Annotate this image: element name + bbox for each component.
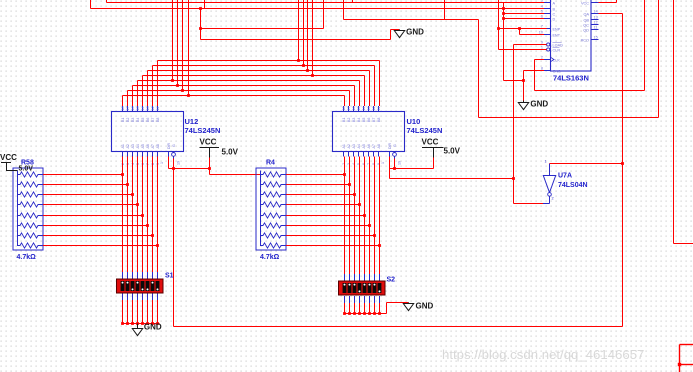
wire R4 row6 to pin (286, 225, 370, 227)
wire 163N gnd vertical (523, 71, 525, 101)
wire S2 stub top pin7 (374, 274, 376, 281)
wire net-C horizontal (504, 13, 545, 15)
wire R4 row2 to pin (286, 184, 350, 186)
node U10 G junction (393, 167, 396, 170)
wire S2 gather line (345, 313, 387, 315)
wire U10 pin1 column (344, 157, 346, 275)
wire U7A output horizontal (514, 203, 544, 205)
resistor pack R4 body (256, 168, 286, 250)
node junction rail65 (302, 64, 305, 67)
svg-text:VCC: VCC (422, 138, 439, 147)
svg-text:GND: GND (144, 322, 162, 331)
wire 498 to CLR vertical (498, 29, 500, 50)
wire bus-mid vertical x298 (298, 0, 300, 61)
wire S2 below pin4 (359, 303, 361, 314)
svg-text:12: 12 (372, 107, 376, 111)
svg-text:U12: U12 (185, 117, 199, 126)
node U12 vcc junction (208, 167, 211, 170)
wire S1 stub bottom pin1 (122, 293, 124, 300)
svg-text:5.0V: 5.0V (19, 166, 34, 173)
svg-text:A3: A3 (131, 144, 135, 148)
svg-text:B3: B3 (131, 118, 135, 122)
wire R58 row7 to pin (43, 235, 153, 237)
svg-text:B3: B3 (352, 118, 356, 122)
wire S2 below pin6 (369, 303, 371, 314)
svg-text:B2: B2 (347, 118, 351, 122)
wire net-QA horizontal (599, 13, 623, 15)
node R58 row7 junction (151, 234, 154, 237)
wire U10 dirg horizontal (390, 168, 434, 170)
svg-text:B2: B2 (126, 118, 130, 122)
svg-text:DIR: DIR (388, 143, 392, 150)
IC 74LS163N pins and labels (539, 0, 599, 73)
wire U12 pin1 column (122, 157, 124, 273)
wire U10 vcc stem red (433, 158, 435, 169)
node S1 gather pin2 (126, 322, 129, 325)
node tie-B junction (502, 7, 505, 10)
svg-text:14: 14 (141, 107, 145, 111)
svg-text:https://blog.csdn.net/qq_46146: https://blog.csdn.net/qq_46146657 (442, 347, 644, 362)
node S2 gather pin1 (343, 312, 346, 315)
node tie-C junction (502, 12, 505, 15)
wire S2 below pin8 (379, 303, 381, 314)
wire S2 below pin1 (344, 303, 346, 314)
svg-text:B8: B8 (156, 118, 160, 122)
wire U10 pin8 column (379, 157, 381, 275)
node R4 row3 junction (353, 193, 356, 196)
node junction rail60 (297, 59, 300, 62)
svg-text:17: 17 (126, 107, 130, 111)
node R58 row5 junction (141, 214, 144, 217)
wire U10 DIR branch down (389, 169, 391, 179)
wire U10 pin4 column (359, 157, 361, 275)
wire S1 below pin1 (122, 300, 124, 324)
IC U12 G pin bubble (172, 153, 176, 157)
svg-text:QC: QC (583, 23, 589, 27)
wire S1 stub top pin4 (137, 272, 139, 279)
wire S2 stub bottom pin8 (379, 296, 381, 303)
wire S1 stub bottom pin2 (127, 293, 129, 300)
node S1 gather pin8 (156, 322, 159, 325)
node junction rail75 (311, 74, 314, 77)
wire net-W riser x343 (343, 0, 345, 20)
wire U12 top pin4 vertical (137, 81, 139, 107)
wire net-A riser mid (352, 0, 354, 3)
node R4 row8 junction (378, 244, 381, 247)
wire bus-left vertical x172 (172, 0, 174, 81)
svg-text:4.7kΩ: 4.7kΩ (260, 254, 280, 261)
node R4 row2 junction (348, 183, 351, 186)
wire net-B riser left (90, 0, 92, 9)
node junction rail70 (306, 69, 309, 72)
wire LOAD horizontal (514, 44, 547, 46)
node S1 gather pin7 (151, 322, 154, 325)
svg-text:GND: GND (406, 28, 424, 37)
wire R58 row8 to pin (43, 245, 158, 247)
wire net-ENP2 horizontal y28 (201, 28, 324, 30)
wire net-QA vertical x622 (622, 14, 624, 327)
power VCC U10 symbol (422, 147, 444, 149)
svg-text:A8: A8 (377, 144, 381, 148)
svg-text:B1: B1 (342, 118, 346, 122)
node inverter output junction (512, 177, 515, 180)
svg-text:ENP: ENP (553, 27, 561, 31)
wire U10 pin7 column (374, 157, 376, 275)
wire net-G12 bottom horizontal y326 (174, 326, 623, 328)
svg-text:A3: A3 (352, 144, 356, 148)
wire U10 pin3 column (354, 157, 356, 275)
node S1 gather pin3 (131, 322, 134, 325)
node S1 gather pin1 (121, 322, 124, 325)
svg-text:A4: A4 (357, 144, 361, 148)
svg-text:C: C (553, 12, 556, 16)
svg-text:A4: A4 (136, 144, 140, 148)
wire S1 stub top pin1 (122, 272, 124, 279)
wire S2 stub bottom pin1 (344, 296, 346, 303)
svg-text:16: 16 (352, 107, 356, 111)
svg-text:A7: A7 (151, 144, 155, 148)
wire U10 pin2 column (349, 157, 351, 275)
wire net-B riser x204 (204, 0, 206, 9)
IC U10 G pin bubble (393, 153, 397, 157)
svg-text:A7: A7 (372, 144, 376, 148)
svg-text:A1: A1 (121, 144, 125, 148)
wire S1 stub bottom pin6 (147, 293, 149, 300)
svg-text:5: 5 (541, 10, 543, 14)
svg-text:3: 3 (541, 0, 543, 3)
wire S1 stub bottom pin3 (132, 293, 134, 300)
wire data rail y95 (123, 95, 345, 97)
wire S1 stub bottom pin5 (142, 293, 144, 300)
svg-text:A5: A5 (141, 144, 145, 148)
svg-text:B6: B6 (146, 118, 150, 122)
wire net-W horizontal y117 (479, 117, 659, 119)
IC U?:74LS163N body (551, 0, 592, 71)
wire U12 top pin5 vertical (142, 76, 144, 107)
node junction rail90 (181, 89, 184, 92)
ground S2 (403, 302, 433, 311)
wire VCC R58 stem (7, 163, 18, 171)
wire bottom-right horizontal y364 (680, 364, 693, 366)
wire bus-left vertical x188 (188, 0, 190, 96)
svg-text:74LS245N: 74LS245N (185, 126, 221, 135)
node R58 row1 junction (121, 173, 124, 176)
wire S1 stub bottom pin8 (157, 293, 159, 300)
IC U10 pin labels (342, 107, 402, 166)
wire S1 below pin2 (127, 300, 129, 324)
wire ENT horizontal (520, 34, 545, 36)
svg-text:12: 12 (151, 107, 155, 111)
wire U12 pin5 column (142, 157, 144, 273)
wire ENT link vertical (519, 29, 521, 35)
svg-text:S2: S2 (387, 277, 396, 284)
node S2 gather pin4 (358, 312, 361, 315)
wire net-ENP horizontal (499, 28, 547, 30)
wire vcc to R4 horizontal (210, 174, 262, 176)
svg-text:11: 11 (156, 107, 160, 111)
svg-text:B4: B4 (136, 118, 140, 122)
wire net-D horizontal (504, 18, 545, 20)
svg-text:R4: R4 (266, 160, 275, 167)
node R58 row3 junction (131, 193, 134, 196)
wire bus-mid vertical x312 (312, 0, 314, 76)
svg-text:U10: U10 (407, 117, 421, 126)
wire net-G1 vertical x200 (200, 9, 202, 40)
node S1 gather pin6 (146, 322, 149, 325)
wire data rail y65 (153, 65, 375, 67)
wire S1 stub bottom pin4 (137, 293, 139, 300)
wire U12 top pin7 vertical (152, 66, 154, 107)
svg-text:VCC: VCC (200, 138, 217, 147)
wire right horizontal y243 (674, 243, 693, 245)
wire gnd-top horizontal y29 (391, 29, 400, 31)
node S2 gather pin5 (363, 312, 366, 315)
wire net-B top horizontal (91, 8, 545, 10)
node S2 gather pin3 (353, 312, 356, 315)
wire U12 top pin1 vertical (122, 96, 124, 107)
svg-text:B7: B7 (151, 118, 155, 122)
wire S1 stub top pin8 (157, 272, 159, 279)
svg-text:QB: QB (584, 18, 590, 22)
node R4 row1 junction (343, 173, 346, 176)
svg-text:17: 17 (347, 107, 351, 111)
node tie-D junction (502, 17, 505, 20)
wire U10 top pin5 vertical (364, 76, 366, 107)
node U12 G junction (172, 167, 175, 170)
svg-text:D: D (553, 17, 556, 21)
wire S2 below pin3 (354, 303, 356, 314)
svg-text:13: 13 (594, 16, 598, 20)
wire U7A input stub (549, 164, 551, 176)
svg-text:RCO: RCO (581, 38, 589, 42)
svg-text:19: 19 (398, 161, 402, 165)
wire S1 below pin6 (147, 300, 149, 324)
node R58 row8 junction (156, 244, 159, 247)
svg-text:A2: A2 (126, 144, 130, 148)
wire R4 row5 to pin (286, 215, 365, 217)
svg-text:74LS245N: 74LS245N (407, 126, 443, 135)
node R58 row2 junction (126, 183, 129, 186)
wire R58 row3 to pin (43, 194, 133, 196)
wire bus-left vertical x177 (177, 0, 179, 86)
svg-text:B7: B7 (372, 118, 376, 122)
switch S1 DIP body (117, 279, 164, 293)
wire net-W vertical x478 (478, 20, 480, 118)
wire 163N VCC riser (616, 0, 618, 3)
svg-text:B4: B4 (357, 118, 361, 122)
wire U12 vcc stem red (209, 158, 211, 169)
switch S2 DIP body (339, 281, 386, 295)
node R58 row6 junction (146, 224, 149, 227)
wire abcd tie horizontal y80 (504, 80, 524, 82)
svg-text:19: 19 (177, 161, 181, 165)
wire bus-left vertical x182 (182, 0, 184, 91)
wire U12 top pin3 vertical (132, 86, 134, 107)
svg-text:1: 1 (545, 160, 547, 164)
svg-text:QD: QD (583, 28, 589, 32)
wire U10 top pin2 vertical (349, 91, 351, 107)
wire vcc to R4 vertical (209, 169, 211, 175)
wire net-CLK horizontal y90 (535, 90, 645, 92)
svg-text:U7A: U7A (558, 173, 572, 180)
node S1 gather pin5 (141, 322, 144, 325)
svg-text:14: 14 (362, 107, 366, 111)
svg-text:74LS163N: 74LS163N (553, 74, 589, 83)
svg-text:GND: GND (416, 302, 434, 311)
node S1 gather pin4 (136, 322, 139, 325)
svg-text:A8: A8 (156, 144, 160, 148)
svg-text:A5: A5 (362, 144, 366, 148)
wire U10 top pin3 vertical (354, 86, 356, 107)
svg-text:74LS04N: 74LS04N (558, 182, 588, 189)
svg-text:A6: A6 (146, 144, 150, 148)
wire data rail y85 (133, 85, 355, 87)
svg-text:G: G (393, 144, 397, 147)
svg-text:S1: S1 (165, 273, 174, 280)
wire S1 gnd stem (137, 324, 139, 329)
node S2 gather pin8 (378, 312, 381, 315)
node S2 gather pin2 (348, 312, 351, 315)
wire data rail y90 (128, 90, 350, 92)
wire U10 pin5 column (364, 157, 366, 275)
svg-text:A2: A2 (347, 144, 351, 148)
wire net-A riser left (106, 0, 108, 3)
svg-text:6: 6 (541, 15, 543, 19)
node junction rail80 (171, 79, 174, 82)
wire U7A input horizontal (550, 163, 623, 165)
node junction x200 y28 (199, 27, 202, 30)
wire U10 G down (394, 159, 396, 169)
wire S2 below pin7 (374, 303, 376, 314)
wire R4 row4 to pin (286, 204, 360, 206)
node R58 row4 junction (136, 203, 139, 206)
wire S1 below pin5 (142, 300, 144, 324)
wire U10 top pin6 vertical (369, 71, 371, 107)
wire net-CLK riser x644 (644, 0, 646, 91)
svg-text:13: 13 (367, 107, 371, 111)
wire 163N gnd pin horizontal (524, 70, 545, 72)
svg-text:15: 15 (357, 107, 361, 111)
wire U10 DIR down (389, 157, 391, 169)
wire R58 row2 to pin (43, 184, 128, 186)
wire net-A top horizontal (107, 2, 545, 4)
wire S2 stub top pin8 (379, 274, 381, 281)
svg-text:2: 2 (552, 197, 554, 201)
wire U12 DIR down (168, 157, 170, 169)
IC U12 pin labels (121, 107, 181, 166)
wire net-CLK vertical x534 (534, 60, 536, 91)
node R4 row6 junction (368, 224, 371, 227)
svg-text:5.0V: 5.0V (222, 148, 239, 157)
svg-text:CLR: CLR (553, 48, 561, 52)
IC U10 74LS245N body (333, 112, 405, 152)
wire S1 below pin3 (132, 300, 134, 324)
wire S2 stub bottom pin2 (349, 296, 351, 303)
svg-text:11: 11 (594, 26, 598, 30)
wire net-ENP2 vertical x323 (323, 0, 325, 29)
wire data rail y80 (138, 80, 360, 82)
svg-text:1: 1 (160, 162, 164, 164)
wire bottom-right horizontal y344 (680, 344, 693, 346)
wire U7A output horizontal blue (543, 203, 550, 205)
wire S1 below pin8 (157, 300, 159, 324)
wire R4 row8 to pin (286, 245, 380, 247)
node R4 row7 junction (373, 234, 376, 237)
node junction rail85 (176, 84, 179, 87)
wire S2 stub top pin6 (369, 274, 371, 281)
svg-text:DIR: DIR (167, 143, 171, 150)
svg-text:B8: B8 (377, 118, 381, 122)
wire S2 stub bottom pin3 (354, 296, 356, 303)
wire U12 top pin2 vertical (127, 91, 129, 107)
wire R4 row1 to pin (286, 174, 345, 176)
IC U12 74LS245N body (112, 112, 184, 152)
wire S2 gnd horizontal (387, 302, 409, 304)
svg-text:5.0V: 5.0V (444, 147, 461, 156)
resistor pack R58 body (13, 168, 43, 250)
wire S2 stub top pin2 (349, 274, 351, 281)
wire ENP riser x498 (498, 0, 500, 29)
svg-text:B1: B1 (121, 118, 125, 122)
wire R4 row3 to pin (286, 194, 355, 196)
wire S1 stub top pin2 (127, 272, 129, 279)
wire U10 top pin4 vertical (359, 81, 361, 107)
svg-text:14: 14 (594, 10, 598, 14)
wire S2 gnd riser (386, 303, 388, 314)
wire CLR horizontal (499, 49, 547, 51)
wire bottom-right vertical x679 (679, 345, 681, 372)
wire U12 pin2 column (127, 157, 129, 273)
wire U12 dirg horizontal (169, 168, 210, 170)
wire R58 row6 to pin (43, 225, 148, 227)
wire U10 top pin8 vertical (379, 61, 381, 107)
svg-text:ENT: ENT (553, 33, 561, 37)
svg-text:1: 1 (381, 162, 385, 164)
wire net-W riser x658 (658, 0, 660, 118)
wire S2 stub bottom pin4 (359, 296, 361, 303)
wire S1 stub bottom pin7 (152, 293, 154, 300)
wire U10 top pin7 vertical (374, 66, 376, 107)
wire net-G12 vertical x173 (173, 169, 175, 327)
wire S1 below pin7 (152, 300, 154, 324)
node R4 row5 junction (363, 214, 366, 217)
svg-text:12: 12 (594, 21, 598, 25)
wire bus-mid vertical x307 (307, 0, 309, 71)
node ENP junction mid (518, 27, 521, 30)
wire U12 pin4 column (137, 157, 139, 273)
node net-QA inverter junction (621, 162, 624, 165)
svg-text:B5: B5 (362, 118, 366, 122)
wire S1 below pin4 (137, 300, 139, 324)
wire right vertical x673 (673, 0, 675, 244)
wire R58 row4 to pin (43, 204, 138, 206)
svg-text:B5: B5 (141, 118, 145, 122)
wire gnd-top horizontal y39 (201, 39, 391, 41)
node 163N gnd junction (522, 79, 525, 82)
svg-text:11: 11 (377, 107, 381, 111)
svg-text:VCC: VCC (0, 153, 17, 162)
wire U7A output stub (549, 196, 551, 203)
ground S1 (132, 329, 142, 336)
wire S1 stub top pin7 (152, 272, 154, 279)
wire R4 row7 to pin (286, 235, 375, 237)
power VCC R58 symbol (1, 162, 11, 164)
svg-text:A6: A6 (367, 144, 371, 148)
wire S2 stub top pin1 (344, 274, 346, 281)
svg-text:18: 18 (342, 107, 346, 111)
ground 163N (518, 100, 548, 110)
wire S2 below pin2 (349, 303, 351, 314)
